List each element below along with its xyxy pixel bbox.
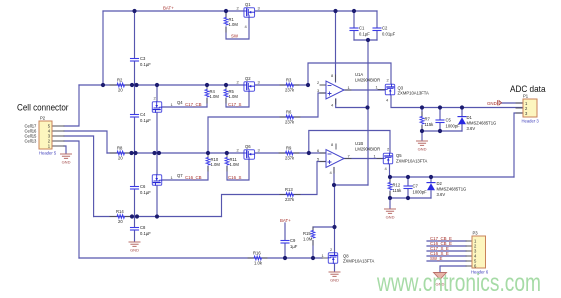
wire supply column to Q8: [334, 185, 336, 253]
wire D1 branch: [461, 108, 463, 132]
svg-text:237k: 237k: [285, 88, 295, 93]
resistor R11 leads: [226, 154, 228, 172]
svg-text:R3: R3: [286, 78, 292, 83]
wire supply drop C1C2 to U1B pin4 row: [367, 40, 369, 185]
resistor R13: [285, 187, 295, 202]
svg-text:1.0M: 1.0M: [303, 237, 313, 242]
wire U1B pin4 tie to supply drop: [334, 184, 368, 186]
svg-text:1µF: 1µF: [290, 244, 298, 249]
svg-text:Cell connector: Cell connector: [17, 103, 69, 113]
svg-text:ZXMP10A13FTA: ZXMP10A13FTA: [343, 259, 375, 264]
ground under R7: [417, 141, 428, 151]
resistor R2 leads: [110, 84, 132, 86]
wire U1A pin4 to supply drop: [336, 99, 368, 108]
wire BAT+ top rail: [103, 10, 377, 12]
wire BAT+ label to C9: [284, 223, 286, 258]
svg-text:3: 3: [317, 88, 320, 93]
svg-text:C9: C9: [290, 238, 296, 243]
svg-text:0.1µF: 0.1µF: [140, 62, 151, 67]
transistor Q7: [152, 173, 183, 185]
ground under P2 pin1: [61, 154, 72, 164]
resistor R14 leads: [110, 216, 132, 218]
wire Q3 source to ADC row: [391, 94, 523, 108]
svg-text:R8: R8: [117, 146, 123, 151]
wire R4 bottom stub: [206, 99, 208, 108]
svg-text:2: 2: [237, 80, 240, 85]
wire U1B output to Q5 gate: [344, 158, 384, 160]
resistor R7: [420, 117, 434, 128]
svg-text:20: 20: [118, 88, 123, 93]
ground under R12: [385, 209, 396, 219]
svg-text:P3: P3: [473, 231, 479, 236]
node row2 junctions: [101, 83, 105, 87]
wire row4 Cell13 net: [94, 216, 222, 218]
svg-text:Header 5: Header 5: [39, 151, 57, 156]
resistor R13 leads: [280, 194, 300, 196]
wire ADC pin3 drop to channel2 row: [514, 113, 523, 177]
resistor R9 leads: [279, 152, 299, 154]
svg-text:D2: D2: [437, 181, 443, 186]
diode D2 zener: [427, 181, 466, 197]
wire U1A pin8 supply from BAT+: [335, 11, 337, 82]
resistor R10 leads: [207, 154, 209, 172]
resistor R8 leads: [110, 152, 131, 154]
svg-text:SW: SW: [231, 34, 239, 39]
node U1B supply junctions: [332, 183, 336, 187]
node U1A pin4 junction: [365, 105, 369, 109]
resistor R1 leads: [225, 12, 227, 32]
resistor R7 leads: [421, 112, 423, 130]
transistor Q3 gate stub: [378, 89, 386, 91]
svg-text:0.1µF: 0.1µF: [140, 231, 151, 236]
svg-text:0.01µF: 0.01µF: [382, 32, 396, 37]
svg-text:C6: C6: [140, 184, 146, 189]
svg-text:LM2904BIDR: LM2904BIDR: [355, 78, 380, 83]
transistor Q5: [374, 147, 428, 172]
wire R10 bottom to Q7 gate net C16_CB: [163, 167, 209, 181]
svg-text:D1: D1: [467, 115, 473, 120]
svg-text:20: 20: [118, 219, 123, 224]
wire P3 pin5 stub net SW_E: [427, 260, 466, 262]
svg-text:2: 2: [237, 6, 240, 11]
wire P2 pin2 to bottom rail: [64, 141, 79, 258]
svg-text:237k: 237k: [285, 156, 295, 161]
resistor R2: [117, 78, 125, 93]
svg-text:2: 2: [237, 148, 240, 153]
capacitor C1: [350, 26, 370, 37]
wire R7 gnd stub: [421, 131, 423, 140]
svg-text:C2: C2: [382, 26, 388, 31]
svg-text:2: 2: [387, 78, 390, 83]
wire C1 C2 bottom tie: [354, 39, 377, 41]
svg-text:R14: R14: [116, 209, 124, 214]
svg-text:237k: 237k: [285, 197, 295, 202]
wire R5 bottom to Q2 gate net C17_S: [226, 91, 249, 107]
svg-text:Q6: Q6: [245, 144, 251, 149]
svg-text:2: 2: [154, 96, 157, 101]
svg-text:MMSZ4685T1G: MMSZ4685T1G: [467, 121, 497, 126]
svg-text:C16_S: C16_S: [228, 175, 241, 180]
ground under Q8: [329, 272, 340, 282]
node R12 C7 bottom junctions: [388, 196, 392, 200]
wire D2 branch: [430, 177, 432, 198]
svg-text:LM2904BIDR: LM2904BIDR: [355, 147, 380, 152]
svg-text:4: 4: [386, 98, 389, 103]
connector P1 Header 3: [522, 94, 540, 124]
wire R12 gnd stub: [389, 198, 391, 208]
op-amp U1B pin stubs: [320, 144, 351, 173]
transistor Q4: [152, 96, 183, 113]
svg-text:U1B: U1B: [355, 141, 363, 146]
svg-text:1: 1: [374, 154, 377, 159]
capacitor C3: [131, 56, 152, 67]
wire Q8 source stub to gnd: [334, 263, 336, 271]
wire R7 branch: [421, 108, 423, 132]
svg-text:C4: C4: [140, 112, 146, 117]
svg-text:1: 1: [348, 85, 351, 90]
node GND port bracket at ADC: [498, 101, 502, 106]
svg-text:2: 2: [317, 80, 320, 85]
resistor R15 leads: [312, 227, 314, 245]
resistor R4: [205, 89, 219, 99]
transistor Q6: [237, 144, 261, 159]
node channel1 output junctions: [420, 105, 424, 109]
capacitor C4: [131, 112, 152, 123]
wire P2 pin5 to row2: [64, 85, 79, 126]
transistor Q8 gate stub: [322, 257, 329, 259]
svg-text:Q5: Q5: [396, 153, 402, 158]
svg-text:5: 5: [317, 157, 320, 162]
wire R11 bottom to Q6 gate net C16_S: [227, 159, 249, 180]
svg-text:C17_S: C17_S: [228, 102, 241, 107]
svg-text:3.6V: 3.6V: [437, 192, 446, 197]
op-amp U1A: [317, 72, 380, 108]
svg-text:Q1: Q1: [245, 2, 251, 7]
svg-text:R7: R7: [425, 117, 431, 122]
svg-text:1: 1: [171, 102, 174, 107]
svg-text:R16: R16: [253, 251, 261, 256]
svg-text:0.1µF: 0.1µF: [140, 190, 151, 195]
resistor R6: [285, 110, 295, 125]
svg-text:0.1µF: 0.1µF: [359, 32, 370, 37]
wire C3/C4/C6/C8 column: [134, 11, 136, 241]
wire P2 pin3 to row4: [64, 136, 94, 217]
svg-text:R2: R2: [117, 78, 123, 83]
resistor R5 leads: [225, 86, 227, 104]
resistor R3: [285, 78, 295, 93]
node row4 junctions: [130, 214, 134, 218]
transistor Q2: [237, 76, 261, 91]
capacitor C7: [404, 184, 427, 195]
wire C7 branch: [407, 177, 409, 198]
svg-text:ZXMP10A13FTA: ZXMP10A13FTA: [396, 159, 428, 164]
wire Q4 gate net C17_CB: [163, 106, 208, 108]
svg-text:115k: 115k: [393, 188, 403, 193]
resistor R4 leads: [206, 86, 208, 104]
svg-text:3.6V: 3.6V: [467, 126, 476, 131]
svg-text:3: 3: [258, 80, 261, 85]
resistor R5: [224, 89, 238, 99]
svg-text:1.0k: 1.0k: [254, 261, 263, 266]
svg-text:C7: C7: [413, 184, 419, 189]
wire P3 pin6 to gnd: [440, 266, 466, 272]
svg-text:P2: P2: [40, 116, 46, 121]
wire row4 step up to R13 line: [222, 162, 327, 217]
svg-text:BAT+: BAT+: [163, 6, 174, 11]
wire Q7 drain from row3: [156, 153, 158, 175]
svg-text:GND: GND: [487, 101, 497, 106]
svg-text:4: 4: [330, 170, 333, 175]
connector P2 pin stubs: [52, 126, 64, 146]
op-amp U1B: [317, 141, 380, 175]
node bottom rail junctions: [283, 256, 287, 260]
wire P3 pin2 stub net C16_CB_E: [427, 245, 466, 247]
resistor R8: [117, 146, 125, 161]
svg-text:Q4: Q4: [177, 100, 183, 105]
wire R15 bottom to rail: [312, 241, 314, 259]
wire R15 branch top: [313, 227, 335, 231]
connector P1 pin stubs: [516, 103, 523, 113]
resistor R14: [116, 209, 125, 224]
capacitor C2: [373, 26, 396, 37]
ground P3 power triangle: [434, 273, 447, 287]
svg-text:C16_CB: C16_CB: [185, 175, 202, 180]
wire bottom SW rail: [79, 257, 322, 259]
transistor Q5 gate stub: [377, 158, 384, 160]
node channel2 output junctions: [388, 175, 392, 179]
wire U1A feedback loop: [308, 63, 391, 85]
svg-text:SW_E: SW_E: [430, 256, 443, 261]
svg-text:237k: 237k: [285, 120, 295, 125]
svg-text:Cell13: Cell13: [25, 139, 38, 144]
svg-text:20: 20: [118, 156, 123, 161]
svg-text:1: 1: [171, 175, 174, 180]
svg-text:0.1µF: 0.1µF: [140, 118, 151, 123]
svg-text:1.0M: 1.0M: [229, 22, 239, 27]
wire row2 Cell16 net: [79, 84, 308, 86]
svg-text:MMSZ4685T1G: MMSZ4685T1G: [437, 187, 467, 192]
svg-text:P1: P1: [523, 94, 529, 99]
wire left drop BAT+ to row2: [102, 11, 104, 85]
svg-text:1.0M: 1.0M: [211, 162, 221, 167]
svg-text:1: 1: [322, 253, 325, 258]
wire C5 branch: [439, 108, 441, 132]
resistor R1: [224, 17, 238, 27]
wire U1B feedback loop: [309, 131, 390, 155]
svg-text:C3: C3: [140, 56, 146, 61]
svg-text:1.0M: 1.0M: [229, 94, 239, 99]
resistor R12: [388, 183, 402, 194]
svg-text:1000pF: 1000pF: [413, 190, 428, 195]
ground under C8: [129, 242, 140, 252]
svg-text:BAT+: BAT+: [280, 218, 291, 223]
svg-text:U1A: U1A: [355, 72, 363, 77]
wire C1 branch: [353, 11, 355, 40]
wire C2 branch: [376, 11, 378, 40]
capacitor C6: [131, 184, 152, 195]
wire U1B pin4 down: [333, 168, 335, 186]
wire R12/C7/D2 bottom tie: [390, 197, 431, 199]
resistor R16: [253, 251, 263, 266]
svg-text:Q7: Q7: [177, 173, 183, 178]
wire U1A pin3 path via R6 from row3: [208, 93, 326, 153]
node BAT+ rail junctions: [132, 9, 136, 13]
wire ADC pin1 to GND label: [501, 102, 523, 104]
svg-text:3: 3: [258, 148, 261, 153]
svg-text:1: 1: [376, 85, 379, 90]
svg-text:1.0M: 1.0M: [230, 162, 240, 167]
wire P2 pin4 to row3: [64, 131, 107, 153]
svg-text:R6: R6: [286, 110, 292, 115]
wire R12 branch: [389, 177, 391, 198]
wire U1B pin6 input: [309, 152, 326, 154]
resistor R11: [225, 157, 239, 167]
svg-text:ZXMP10A13FTA: ZXMP10A13FTA: [398, 91, 430, 96]
svg-text:www.cntronics.com: www.cntronics.com: [376, 269, 541, 297]
resistor R9: [285, 146, 295, 161]
svg-text:C17_CB: C17_CB: [185, 102, 202, 107]
svg-text:2: 2: [330, 247, 333, 252]
svg-text:R15: R15: [303, 231, 311, 236]
resistor R16 leads: [248, 257, 267, 259]
transistor Q8: [322, 247, 375, 264]
svg-text:C5: C5: [446, 118, 452, 123]
wire P3 pin4 stub net C16_S_E: [427, 255, 466, 257]
connector P3 Header 6: [471, 231, 489, 275]
svg-text:4: 4: [245, 24, 248, 29]
transistor Q1: [237, 2, 261, 29]
op-amp U1A pin stubs: [320, 75, 351, 104]
wire Q7 source to row4: [156, 184, 158, 217]
capacitor C9: [281, 238, 298, 249]
wire Q4 source to row3: [156, 112, 158, 154]
svg-text:R9: R9: [286, 146, 292, 151]
svg-text:ADC data: ADC data: [510, 84, 546, 94]
svg-text:3: 3: [258, 6, 261, 11]
capacitor C8: [131, 225, 152, 236]
wire P3 pin3 stub net C17_S_E: [427, 250, 466, 252]
connector P2 Header 5: [39, 116, 57, 156]
resistor R10: [206, 157, 220, 167]
resistor R6 leads: [280, 116, 300, 118]
node R7 C5 bottom junctions: [420, 129, 424, 133]
svg-text:4: 4: [331, 103, 334, 108]
wire Q5 source to channel2 row: [390, 163, 515, 177]
wire row3 Cell15 net: [107, 152, 309, 154]
svg-text:8: 8: [331, 142, 334, 147]
wire Q4 drain from row2: [156, 85, 158, 102]
svg-text:R13: R13: [285, 187, 293, 192]
resistor R12 leads: [389, 178, 391, 196]
svg-text:7: 7: [348, 154, 351, 159]
diode D1 zener: [458, 115, 496, 131]
svg-text:R12: R12: [393, 183, 401, 188]
wire U1A output to Q3 gate: [344, 89, 385, 91]
resistor R3 leads: [280, 84, 299, 86]
svg-text:8: 8: [331, 73, 334, 78]
node row3 junctions: [129, 151, 133, 155]
transistor Q3: [376, 78, 430, 103]
connector P3 pin stubs: [466, 241, 472, 266]
svg-text:115k: 115k: [425, 122, 435, 127]
node C1C2 bottom junction: [366, 38, 370, 42]
capacitor C5: [436, 118, 460, 129]
wire P3 pin1 stub net C17_CB_E: [427, 240, 466, 242]
svg-text:1.0M: 1.0M: [210, 94, 220, 99]
svg-text:1000pF: 1000pF: [446, 124, 461, 129]
resistor R15: [303, 231, 315, 242]
wire R7/C5/D1 bottom tie: [422, 130, 462, 132]
svg-text:C1: C1: [359, 26, 365, 31]
wire R1 branch and Q1 gate net SW: [226, 11, 249, 39]
svg-text:Q2: Q2: [245, 76, 251, 81]
svg-text:Header 3: Header 3: [522, 119, 540, 124]
wire P2 pin1 to gnd: [64, 146, 66, 153]
svg-text:4: 4: [385, 166, 388, 171]
svg-text:C8: C8: [140, 225, 146, 230]
svg-text:6: 6: [317, 148, 320, 153]
